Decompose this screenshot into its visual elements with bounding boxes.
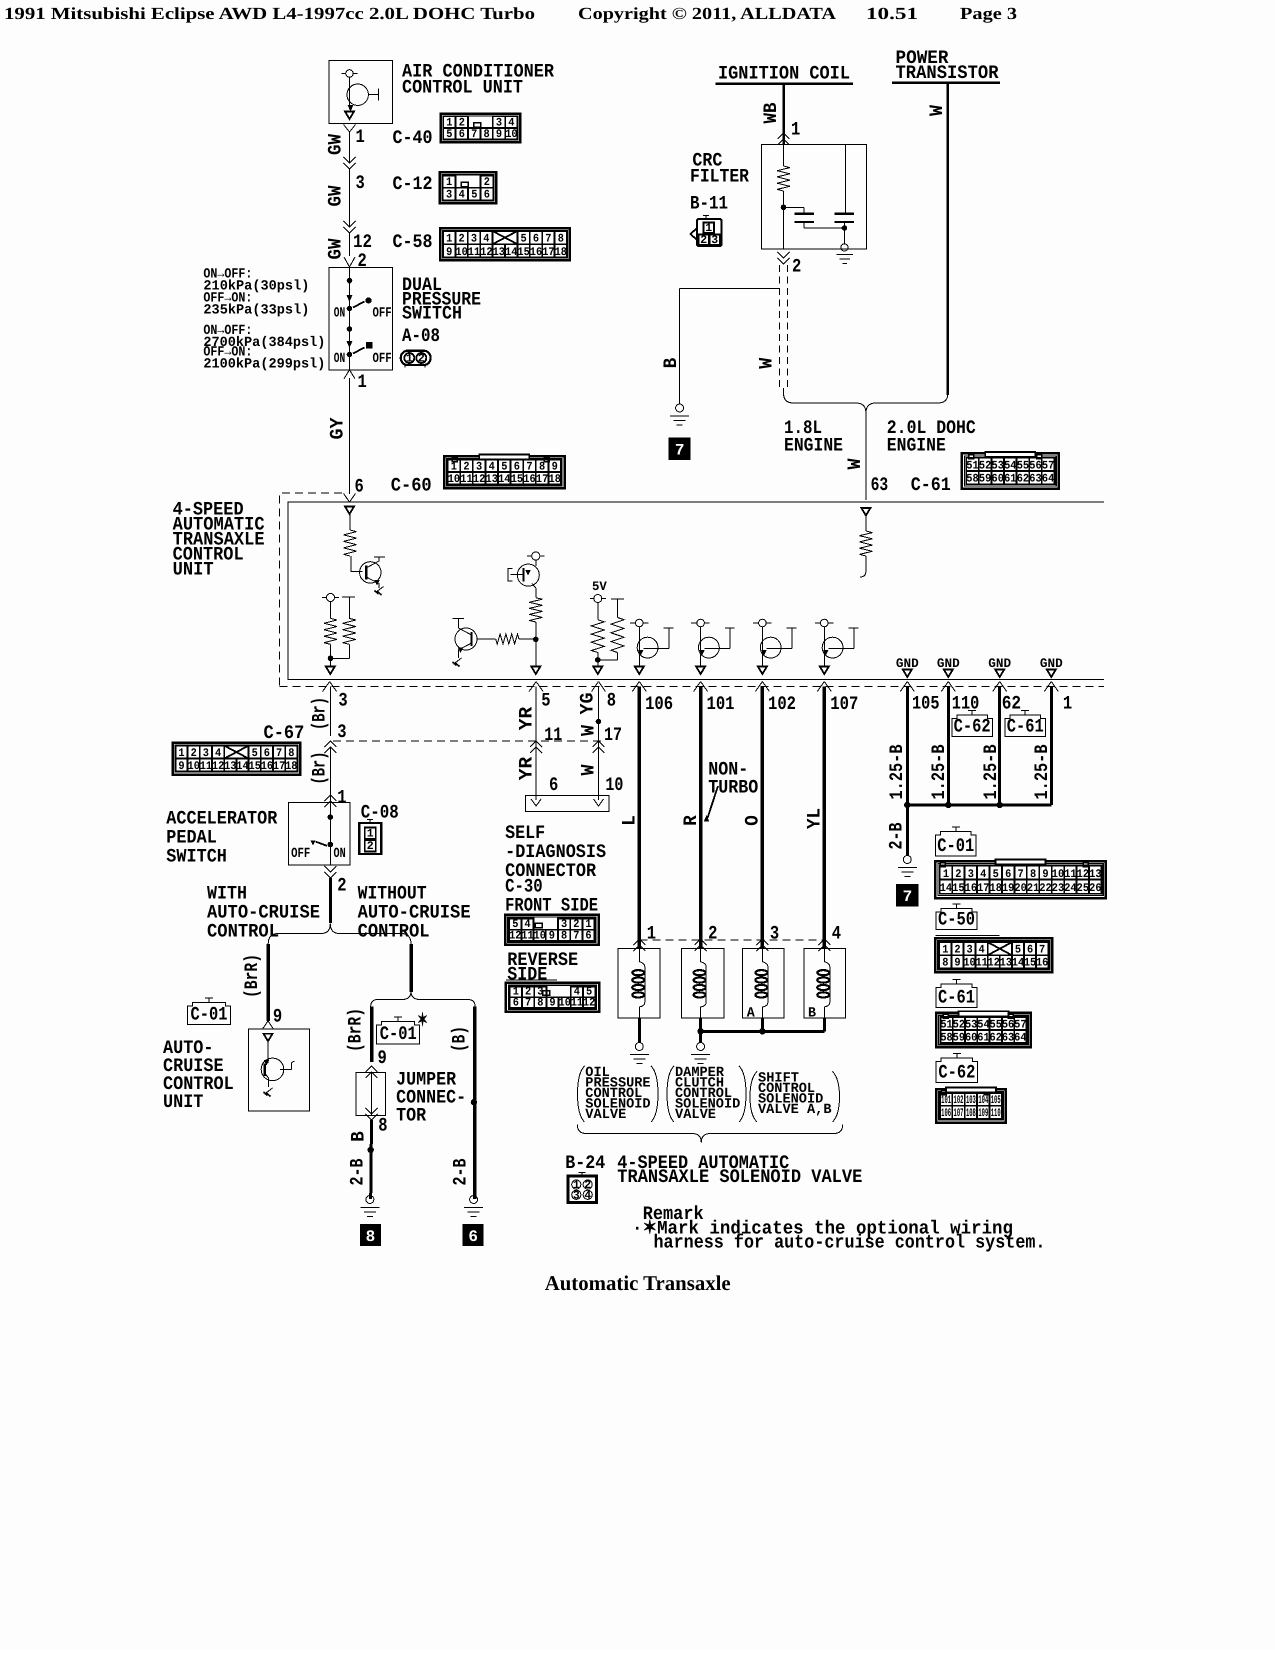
svg-text:14: 14 (236, 760, 248, 773)
svg-text:1.25-B: 1.25-B (980, 745, 1002, 800)
svg-text:ON: ON (334, 306, 345, 322)
svg-text:63: 63 (1002, 1031, 1014, 1044)
svg-text:23: 23 (1052, 882, 1064, 895)
wire YG pin 8 (598, 687, 600, 801)
transistor Q8 in auto-cruise unit (264, 1034, 273, 1042)
connector C-60 pin box (444, 456, 565, 488)
internal resistor R1 (343, 530, 356, 556)
svg-text:TRANSAXLE SOLENOID VALVE: TRANSAXLE SOLENOID VALVE (617, 1166, 862, 1188)
ground below jumper (366, 1196, 374, 1204)
engine split brace (784, 388, 866, 413)
svg-text:12: 12 (583, 996, 595, 1009)
svg-text:YR: YR (516, 706, 538, 730)
arrow above pin 3 (326, 667, 335, 675)
svg-text:5V: 5V (592, 579, 607, 594)
fork at control unit pin 8 (592, 682, 599, 692)
internal resistor R7 (611, 618, 624, 653)
ground below solenoid 1 (635, 1043, 643, 1051)
svg-text:18: 18 (549, 473, 561, 486)
svg-text:CONTROL UNIT: CONTROL UNIT (402, 77, 523, 99)
svg-text:59: 59 (953, 1031, 965, 1044)
svg-text:11: 11 (460, 473, 472, 486)
wire through jumper (371, 1072, 373, 1115)
svg-text:2: 2 (337, 875, 346, 897)
coil in solenoid 1 (639, 949, 645, 967)
ignition coil underline (716, 82, 854, 85)
svg-text:15: 15 (952, 882, 964, 895)
svg-text:Automatic Transaxle: Automatic Transaxle (545, 1271, 731, 1295)
svg-text:6: 6 (513, 996, 519, 1009)
svg-text:9: 9 (954, 957, 960, 970)
output transistor Q6 (759, 619, 767, 627)
junction dot at Q3 collector (533, 637, 539, 643)
junction dot at CRC ground (842, 225, 848, 231)
svg-text:3: 3 (446, 189, 452, 202)
svg-text:9: 9 (496, 128, 502, 141)
svg-text:FRONT SIDE: FRONT SIDE (505, 895, 598, 917)
dashed harness line at C-67 (333, 740, 601, 742)
svg-text:✶: ✶ (417, 1010, 428, 1032)
svg-text:Copyright © 2011, ALLDATA: Copyright © 2011, ALLDATA (578, 4, 837, 23)
svg-text:235kPa(33psl): 235kPa(33psl) (203, 303, 309, 319)
svg-text:3: 3 (573, 1189, 580, 1202)
svg-text:A-08: A-08 (402, 325, 440, 347)
arrow at A/C unit output (345, 112, 354, 120)
ground ref box 8 (360, 1224, 380, 1245)
svg-text:GW: GW (325, 133, 347, 155)
solenoid ground bus (701, 1030, 825, 1033)
svg-text:GW: GW (325, 238, 347, 260)
inline chevrons at pin 11 (530, 741, 542, 747)
svg-text:C-08: C-08 (361, 802, 399, 824)
svg-text:10: 10 (448, 473, 460, 486)
connector A-08 icon (401, 351, 431, 365)
svg-text:ENGINE: ENGINE (784, 435, 843, 457)
coil in solenoid 4 (824, 949, 830, 967)
svg-text:110: 110 (991, 1107, 1001, 1120)
transistor Q2 (455, 628, 477, 650)
svg-text:1: 1 (791, 119, 800, 141)
svg-text:3: 3 (711, 234, 718, 247)
jumper connector box (356, 1072, 386, 1115)
svg-text:C-62: C-62 (954, 716, 991, 738)
connector C-61 pin box right (936, 1013, 1031, 1047)
inline chevrons into CRC filter (778, 133, 790, 139)
coil in solenoid 3 (762, 949, 768, 967)
arrow inside box at pin 6 (345, 507, 354, 515)
svg-text:17: 17 (542, 246, 554, 259)
wire 62 (998, 687, 1001, 806)
svg-text:15: 15 (1024, 957, 1036, 970)
inline chevrons at pin 1 accel switch (324, 795, 336, 801)
solenoid valve box 4 (shift B) (804, 949, 845, 1018)
svg-text:1.25-B: 1.25-B (1031, 745, 1053, 800)
ground hatch for Q2 (454, 658, 462, 664)
coil in solenoid 2 (701, 949, 707, 967)
output transistor Q5 (697, 619, 705, 627)
svg-text:OFF: OFF (373, 351, 392, 367)
arrow above pin below Q6 (758, 667, 767, 675)
svg-text:6: 6 (585, 929, 591, 942)
T-bar above R3 (342, 596, 355, 598)
svg-text:C-01: C-01 (191, 1004, 228, 1026)
capacitor 1 in CRC filter (784, 206, 805, 208)
5V supply circle (594, 595, 602, 603)
fork at control unit pin 1 (1044, 682, 1051, 692)
inline chevrons at solenoid pin 2 (695, 939, 707, 945)
svg-text:CONTROL: CONTROL (207, 921, 279, 943)
svg-text:2: 2 (708, 923, 717, 945)
svg-text:13: 13 (224, 760, 236, 773)
junction dot in CRC filter (781, 205, 787, 211)
svg-text:9: 9 (273, 1006, 282, 1028)
transaxle control unit dashed boundary (280, 493, 343, 686)
svg-text:Page 3: Page 3 (960, 4, 1017, 23)
svg-text:10: 10 (455, 246, 467, 259)
wire GY (349, 378, 351, 494)
connector C-62 pin box right (936, 1089, 1006, 1122)
svg-text:60: 60 (992, 473, 1004, 486)
resistor R8 at pin 63 (861, 508, 870, 516)
CRC filter box (762, 145, 867, 250)
junction dot on YG wire (596, 719, 602, 725)
svg-text:8: 8 (378, 1115, 387, 1137)
GND arrow 1 (903, 670, 912, 678)
svg-text:10.51: 10.51 (866, 4, 918, 23)
ground bus joining 105 110 62 1 (907, 804, 1051, 807)
svg-text:(Br): (Br) (309, 752, 331, 785)
svg-text:62: 62 (1002, 693, 1021, 715)
svg-text:17: 17 (273, 760, 285, 773)
connector C-61 top pin box (962, 453, 1059, 488)
svg-text:11: 11 (521, 929, 533, 942)
svg-text:C-50: C-50 (938, 909, 975, 931)
shift control solenoid label group (750, 1072, 757, 1123)
svg-text:C-61: C-61 (938, 987, 975, 1009)
svg-text:2-B: 2-B (347, 1159, 369, 1186)
svg-text:2-B: 2-B (450, 1159, 472, 1186)
svg-text:OFF: OFF (373, 306, 392, 322)
svg-text:14: 14 (498, 473, 510, 486)
wire below solenoid 4 (823, 1018, 826, 1031)
svg-text:24: 24 (1064, 882, 1076, 895)
connector C-58 pin box (440, 228, 570, 260)
wire (B) right branch (473, 1007, 477, 1200)
svg-text:1: 1 (406, 353, 413, 366)
svg-text:7: 7 (525, 996, 531, 1009)
connector B-11 icon (705, 216, 707, 220)
svg-text:SWITCH: SWITCH (402, 302, 462, 324)
ground hatch in auto-cruise unit (265, 1088, 273, 1094)
svg-text:C-61: C-61 (911, 474, 951, 496)
svg-text:9: 9 (178, 760, 184, 773)
wire below solenoid 1 (638, 1018, 641, 1043)
wire (BrR) to jumper connector (370, 1007, 374, 1063)
svg-text:2100kPa(299psl): 2100kPa(299psl) (203, 356, 325, 372)
damper clutch solenoid label group (667, 1066, 674, 1122)
svg-text:VALVE: VALVE (585, 1107, 626, 1123)
ground ref box 7 right (897, 885, 918, 906)
GND arrow 2 (944, 670, 953, 678)
svg-text:1991 Mitsubishi Eclipse AWD L4: 1991 Mitsubishi Eclipse AWD L4-1997cc 2.… (4, 4, 535, 23)
pressure switch wire & contacts (349, 267, 351, 369)
svg-text:15: 15 (249, 760, 261, 773)
accel switch wire and contact (329, 802, 331, 865)
svg-text:4: 4 (459, 189, 465, 202)
accelerator pedal switch box (289, 802, 350, 865)
svg-text:9: 9 (549, 929, 555, 942)
svg-text:7: 7 (675, 442, 685, 460)
svg-text:16: 16 (261, 760, 273, 773)
ground ref box 7 left (669, 438, 690, 460)
svg-text:OFF: OFF (291, 846, 310, 862)
arrow above pin below Q7 (820, 667, 829, 675)
svg-text:64: 64 (1042, 473, 1054, 486)
junction dot 110 (945, 802, 951, 808)
svg-text:3: 3 (770, 923, 779, 945)
svg-text:7: 7 (573, 929, 579, 942)
fork at control unit pin 106 (632, 682, 639, 692)
svg-text:TOR: TOR (396, 1105, 427, 1127)
wire below CRC resistor (783, 191, 785, 249)
junction dot below solenoid 2 (697, 1028, 703, 1034)
svg-text:14: 14 (505, 246, 517, 259)
connector C-01 badge left (208, 998, 210, 1003)
svg-text:16: 16 (530, 246, 542, 259)
inline connector C-12 chevrons (344, 157, 356, 163)
junction dot 105 (904, 802, 910, 808)
svg-text:16: 16 (523, 473, 535, 486)
svg-text:8: 8 (942, 957, 948, 970)
svg-text:102: 102 (768, 693, 796, 715)
fork at control unit pin 3 (323, 682, 330, 692)
svg-text:16: 16 (965, 882, 977, 895)
fork at control unit pin 5 (529, 682, 536, 692)
svg-text:9: 9 (549, 996, 555, 1009)
svg-text:6: 6 (484, 189, 490, 202)
ground hatch for Q1 (376, 587, 384, 593)
svg-text:W: W (926, 104, 948, 116)
svg-text:8: 8 (561, 929, 567, 942)
connector C-08 icon (369, 820, 371, 824)
svg-text:1.25-B: 1.25-B (928, 745, 950, 800)
svg-text:GW: GW (325, 185, 347, 207)
svg-text:60: 60 (965, 1031, 977, 1044)
dual pressure switch box (329, 267, 392, 369)
svg-text:C-67: C-67 (264, 722, 305, 744)
ground below (B) wire (470, 1196, 478, 1204)
connector C-01 badge list (955, 827, 957, 832)
T-bar above R7 (611, 598, 624, 600)
svg-text:12: 12 (988, 957, 1000, 970)
svg-text:62: 62 (1017, 473, 1029, 486)
dashed harness line at solenoid pins (639, 939, 824, 941)
svg-text:5: 5 (446, 128, 452, 141)
svg-text:9: 9 (378, 1047, 387, 1069)
svg-text:7: 7 (903, 888, 913, 906)
svg-text:GY: GY (327, 417, 349, 440)
svg-text:2: 2 (700, 234, 707, 247)
inline chevrons below jumper (366, 1108, 378, 1114)
fork below pressure switch pin 1 (344, 370, 350, 379)
svg-text:10: 10 (605, 774, 623, 796)
svg-text:63: 63 (871, 474, 889, 496)
svg-text:63: 63 (1029, 473, 1041, 486)
svg-text:14: 14 (940, 882, 952, 895)
svg-text:10: 10 (963, 957, 975, 970)
svg-text:101: 101 (707, 693, 735, 715)
non-turbo pointer arrow (708, 786, 719, 818)
fork at control unit pin 105 (900, 682, 907, 692)
svg-text:8: 8 (484, 128, 490, 141)
connector C-30 front side pin box (505, 915, 598, 945)
inline chevrons at solenoid pin 4 (818, 939, 830, 945)
junction dot below solenoid 3 (759, 1028, 765, 1034)
oil pressure solenoid label group (578, 1066, 585, 1122)
svg-text:58: 58 (966, 473, 978, 486)
svg-text:C-12: C-12 (393, 173, 433, 195)
inline connector C-58 chevrons (344, 221, 356, 227)
svg-text:64: 64 (1014, 1031, 1026, 1044)
jumper split brace (371, 992, 411, 1007)
svg-text:ON: ON (334, 351, 345, 367)
arrow above pin below Q4 (635, 667, 644, 675)
svg-text:ON: ON (334, 846, 346, 862)
svg-text:B: B (660, 358, 682, 369)
inline chevrons at solenoid pin 1 (633, 939, 645, 945)
fork at control unit pin 102 (755, 682, 762, 692)
svg-text:2: 2 (358, 250, 367, 272)
fork into pressure switch pin 2 (344, 257, 350, 267)
svg-text:(BrR): (BrR) (241, 954, 263, 998)
svg-text:106: 106 (645, 693, 673, 715)
wire stub without auto-cruise (409, 944, 413, 992)
junction dot on B wire (368, 1147, 374, 1153)
svg-text:18: 18 (555, 246, 567, 259)
CRC filter ground (841, 244, 848, 251)
svg-text:18: 18 (285, 760, 297, 773)
capacitor 2 in CRC filter (845, 145, 847, 214)
inline chevrons at pin 17 (593, 741, 605, 747)
svg-text:B-11: B-11 (690, 193, 728, 215)
svg-text:1: 1 (356, 126, 365, 148)
wire (BrR) to auto-cruise unit (266, 944, 270, 1021)
internal resistor R6 (597, 603, 599, 620)
svg-text:(Br): (Br) (309, 697, 331, 730)
connector C-50 badge list (955, 904, 957, 909)
svg-text:1: 1 (1063, 693, 1072, 715)
solenoid valve box 1 (oil pressure) (618, 949, 660, 1018)
wire 1 (1050, 687, 1053, 806)
svg-text:A: A (747, 1006, 756, 1022)
svg-text:12: 12 (509, 929, 521, 942)
svg-text:10: 10 (534, 929, 546, 942)
svg-text:11: 11 (544, 724, 562, 746)
auto-cruise split brace (268, 924, 330, 945)
connector B-24 icon (581, 1173, 583, 1177)
svg-text:15: 15 (517, 246, 529, 259)
svg-text:6: 6 (549, 774, 558, 796)
wire 110 (947, 687, 950, 806)
svg-text:8: 8 (366, 1228, 376, 1246)
junction dot on (B) wire (471, 1099, 477, 1105)
arrowhead into diag connector YR (531, 799, 541, 806)
svg-text:2: 2 (418, 353, 425, 366)
svg-text:13: 13 (493, 246, 505, 259)
wire below solenoid 3 (761, 1018, 764, 1031)
transistor Q1 (360, 562, 381, 583)
svg-text:15: 15 (511, 473, 523, 486)
power transistor underline (892, 81, 1000, 84)
arrow above pin 5 (531, 667, 540, 675)
output transistor Q7 (821, 619, 829, 627)
svg-text:4: 4 (584, 1189, 591, 1202)
svg-text:2: 2 (792, 256, 801, 278)
svg-text:C-58: C-58 (393, 231, 433, 253)
wire to pin 63 (865, 413, 867, 500)
svg-text:C-62: C-62 (938, 1061, 975, 1083)
svg-text:1: 1 (337, 787, 346, 809)
svg-text:C-61: C-61 (1007, 716, 1044, 738)
svg-text:YR: YR (516, 756, 538, 780)
svg-text:W: W (844, 458, 866, 470)
ground ref box 6 (463, 1224, 483, 1245)
svg-text:12: 12 (480, 246, 492, 259)
svg-text:12: 12 (473, 473, 485, 486)
svg-text:TRANSISTOR: TRANSISTOR (896, 62, 1000, 84)
wire GW segment 2 (349, 169, 351, 227)
svg-text:UNIT: UNIT (173, 559, 214, 581)
svg-text:8: 8 (537, 996, 543, 1009)
svg-text:10: 10 (188, 760, 200, 773)
svg-text:25: 25 (1077, 882, 1089, 895)
svg-text:harness for auto-cruise contro: harness for auto-cruise control system. (654, 1232, 1046, 1254)
svg-text:VALVE A,B: VALVE A,B (758, 1102, 832, 1118)
svg-text:1.25-B: 1.25-B (886, 745, 908, 800)
inline chevrons below accel switch (324, 866, 336, 872)
svg-text:6: 6 (468, 1228, 478, 1246)
connector C-67 pin box (173, 743, 301, 775)
svg-text:7: 7 (471, 128, 477, 141)
wire WB from ignition coil (782, 84, 785, 145)
fork at control unit pin 101 (694, 682, 701, 692)
fork at control unit pin 62 (993, 682, 1000, 692)
wire 3 (Br) upper (329, 687, 331, 737)
svg-text:22: 22 (1039, 882, 1051, 895)
svg-text:R: R (680, 815, 702, 826)
svg-text:2-B: 2-B (886, 823, 908, 850)
ground below solenoid 2 (697, 1043, 705, 1051)
svg-text:6: 6 (459, 128, 465, 141)
self-diagnosis connector bar (525, 795, 609, 811)
fork at control unit pin 110 (941, 682, 948, 692)
optional dashed wire pair (779, 265, 781, 390)
svg-text:21: 21 (1027, 882, 1039, 895)
transistor Q3 (532, 552, 540, 560)
fork into C-40 pin 1 (344, 125, 350, 133)
svg-text:107: 107 (954, 1107, 964, 1120)
resistor R5 below Q3 (529, 598, 542, 622)
wire B below jumper (369, 1120, 373, 1199)
svg-text:8: 8 (607, 690, 616, 712)
svg-text:B: B (808, 1006, 817, 1022)
internal resistor R3 (343, 618, 356, 644)
internal resistor R2 (330, 602, 332, 619)
connector C-61 badge (1024, 711, 1026, 716)
wire YL pin 107 (823, 687, 827, 949)
connector C-62 badge (971, 711, 973, 716)
inline chevrons below CRC filter pin 2 (778, 252, 790, 258)
